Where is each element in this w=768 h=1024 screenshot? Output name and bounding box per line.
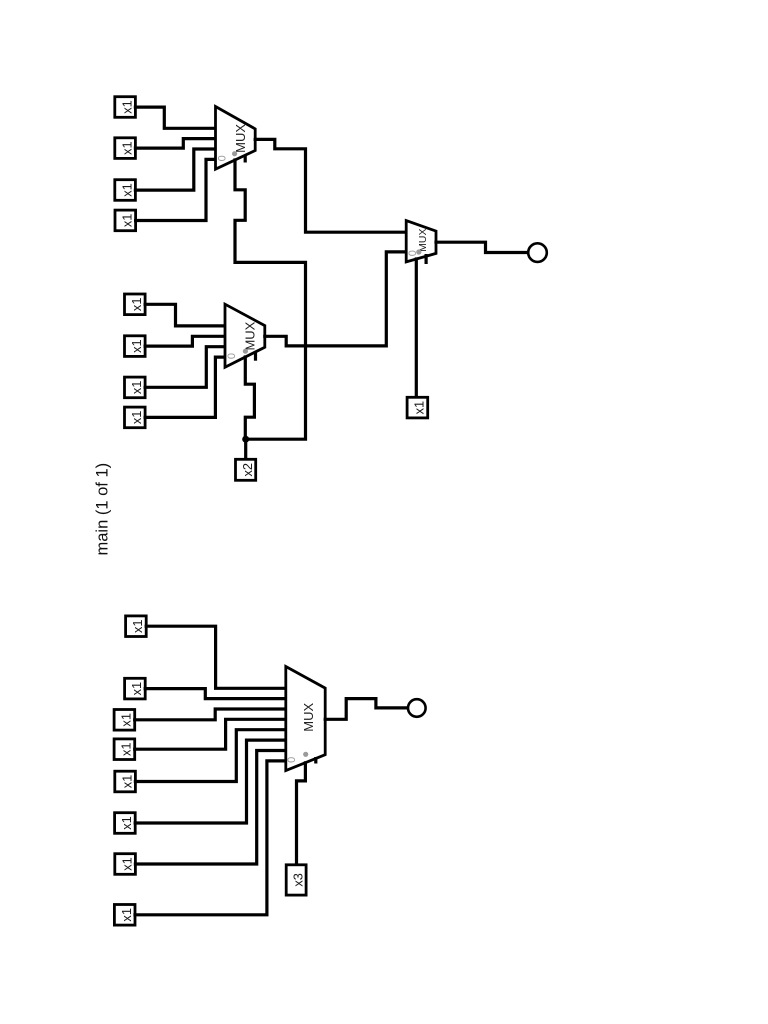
svg-text:x1: x1 [129,298,144,312]
wire A3 to MUX1 in2 [135,149,215,190]
output pin (bottom circuit) [408,699,426,717]
multiplexer MUX4 [286,667,325,771]
svg-text:x1: x1 [129,381,144,395]
svg-text:x1: x1 [119,141,134,155]
svg-text:x3: x3 [291,873,306,887]
svg-text:MUX: MUX [233,124,248,153]
wire MUX4 select to x3 [297,763,306,865]
svg-text:x1: x1 [119,857,134,871]
svg-text:x1: x1 [119,775,134,789]
svg-text:x1: x1 [119,713,134,727]
wire B8 to MUX4 in7 [135,761,286,915]
svg-text:main (1 of 1): main (1 of 1) [94,463,112,556]
input pin A3 (x1) [115,180,136,201]
input pin B8 (x1) [114,905,135,926]
input pin B7 (x1) [115,854,136,875]
input pin X3 (x3) [286,865,306,895]
junction node (select bus) [242,436,249,443]
svg-text:MUX: MUX [301,703,316,732]
multiplexer MUX3 [406,221,436,264]
svg-text:x1: x1 [119,816,134,830]
wire C2 to MUX2 in1 [145,336,225,346]
wire A2 to MUX1 in1 [135,139,215,149]
svg-text:x1: x1 [120,214,135,228]
wire B6 to MUX4 in5 [135,740,286,823]
input pin B5 (x1) [115,771,136,792]
svg-text:0: 0 [286,757,298,763]
wire C3 to MUX2 in2 [145,347,225,388]
svg-text:0: 0 [216,155,228,161]
wire MUX3 out to output pin [436,242,528,252]
svg-text:x1: x1 [130,619,145,633]
wire A4 to MUX1 in3 [136,159,216,220]
input pin C2 (x1) [125,336,146,357]
multiplexer MUX1 [216,107,256,170]
wire MUX3 select to S3 [415,259,418,397]
wire B1 to MUX4 in0 [146,626,286,688]
input pin C4 (x1) [125,407,146,428]
input pin C3 (x1) [125,377,146,398]
svg-text:x1: x1 [129,682,144,696]
svg-text:MUX: MUX [417,229,429,252]
svg-text:MUX: MUX [243,321,258,350]
svg-text:0: 0 [226,353,238,359]
input pin B2 (x1) [125,678,146,699]
svg-text:x1: x1 [129,411,144,425]
svg-text:x1: x1 [119,183,134,197]
input pin B6 (x1) [115,813,136,834]
wire B5 to MUX4 in4 [135,730,285,782]
input pin A2 (x1) [115,138,136,159]
svg-text:x1: x1 [119,742,134,756]
wire C4 to MUX2 in3 [145,357,225,417]
svg-text:x1: x1 [119,100,134,114]
svg-text:x2: x2 [240,463,255,477]
wire C1 to MUX2 in0 [145,304,225,326]
multiplexer MUX2 [225,304,265,367]
svg-text:x1: x1 [412,401,427,415]
wire B7 to MUX4 in6 [135,751,285,865]
input pin C1 (x1) [125,294,146,315]
svg-text:x1: x1 [119,908,134,922]
wire B3 to MUX4 in2 [135,709,286,720]
wire MUX4 out to output pin [325,699,408,720]
input pin X2 (x2) [236,459,256,480]
input pin B3 (x1) [114,710,135,731]
input pin B1 (x1) [126,616,147,637]
wire MUX1 out to MUX3 in0 [255,139,406,232]
wire MUX1 select to junction [235,160,306,439]
wire MUX2 select to junction [245,357,254,439]
input pin A1 (x1) [115,97,136,118]
input pin B4 (x1) [114,739,135,760]
wire B2 to MUX4 in1 [145,689,286,699]
svg-text:x1: x1 [129,339,144,353]
input pin A4 (x1) [115,210,136,231]
wire junction to x2 [244,439,247,459]
output pin (top circuit) [528,243,547,262]
wire B4 to MUX4 in3 [135,719,286,749]
wire A1 to MUX1 in0 [135,107,215,128]
input pin S3 (x1) [407,397,428,418]
wire MUX2 out to MUX3 in1 [265,252,406,346]
